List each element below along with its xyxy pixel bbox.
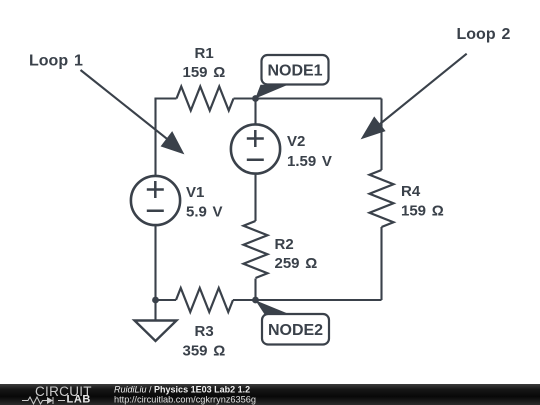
wire top-left segment bbox=[156, 99, 177, 100]
loop 1 arrow line bbox=[81, 70, 167, 139]
wire bottom-right segment bbox=[233, 299, 382, 301]
svg-text:http://circuitlab.com/cgkrrynz: http://circuitlab.com/cgkrrynz6356g bbox=[114, 394, 256, 404]
svg-text:5.9 V: 5.9 V bbox=[186, 204, 223, 221]
wire middle lower bbox=[254, 279, 256, 301]
svg-text:R3: R3 bbox=[195, 323, 214, 340]
wire middle between V2 and R2 bbox=[254, 174, 256, 222]
svg-text:NODE1: NODE1 bbox=[267, 63, 322, 80]
junction dot NODE1 bbox=[252, 95, 259, 102]
svg-text:159 Ω: 159 Ω bbox=[401, 203, 444, 220]
node NODE1 callout box bbox=[255, 55, 328, 99]
svg-text:R4: R4 bbox=[401, 183, 421, 200]
svg-text:R1: R1 bbox=[195, 45, 214, 62]
svg-text:NODE2: NODE2 bbox=[268, 322, 323, 339]
svg-text:R2: R2 bbox=[275, 236, 294, 253]
wire right lower bbox=[380, 227, 382, 300]
wire bottom-left segment bbox=[156, 299, 177, 301]
logo schematic glyph (resistor + diode) bbox=[22, 397, 65, 404]
junction dot ground bbox=[152, 297, 159, 304]
loop 1 arrowhead bbox=[161, 131, 185, 154]
wire right upper bbox=[380, 99, 382, 171]
loop 2 arrowhead bbox=[361, 116, 386, 139]
ground stub wire bbox=[154, 300, 156, 321]
wire top-right segment bbox=[234, 97, 382, 99]
junction dot NODE2 bbox=[252, 297, 259, 304]
ground symbol bbox=[135, 321, 177, 342]
wire left upper bbox=[154, 99, 156, 176]
svg-text:Loop 2: Loop 2 bbox=[457, 26, 511, 43]
loop 2 arrow line bbox=[380, 54, 467, 124]
resistor R2 bbox=[244, 221, 268, 278]
svg-text:259 Ω: 259 Ω bbox=[275, 255, 318, 272]
wire left lower bbox=[154, 225, 156, 300]
voltage source V1 bbox=[131, 176, 180, 225]
resistor R4 bbox=[370, 170, 394, 227]
svg-text:359 Ω: 359 Ω bbox=[183, 343, 226, 360]
voltage source V2 bbox=[231, 124, 280, 173]
svg-text:Loop 1: Loop 1 bbox=[29, 53, 83, 70]
svg-text:1.59 V: 1.59 V bbox=[287, 153, 332, 170]
node NODE2 callout box bbox=[255, 300, 329, 344]
svg-text:V2: V2 bbox=[287, 133, 305, 150]
resistor R3 bbox=[176, 288, 233, 312]
svg-text:V1: V1 bbox=[186, 184, 204, 201]
wire middle upper bbox=[254, 99, 256, 125]
svg-text:159 Ω: 159 Ω bbox=[183, 64, 226, 81]
svg-text:LAB: LAB bbox=[67, 394, 91, 405]
svg-text:RuidiLiu / Physics 1E03 Lab2 1: RuidiLiu / Physics 1E03 Lab2 1.2 bbox=[114, 384, 250, 394]
resistor R1 bbox=[177, 87, 234, 111]
